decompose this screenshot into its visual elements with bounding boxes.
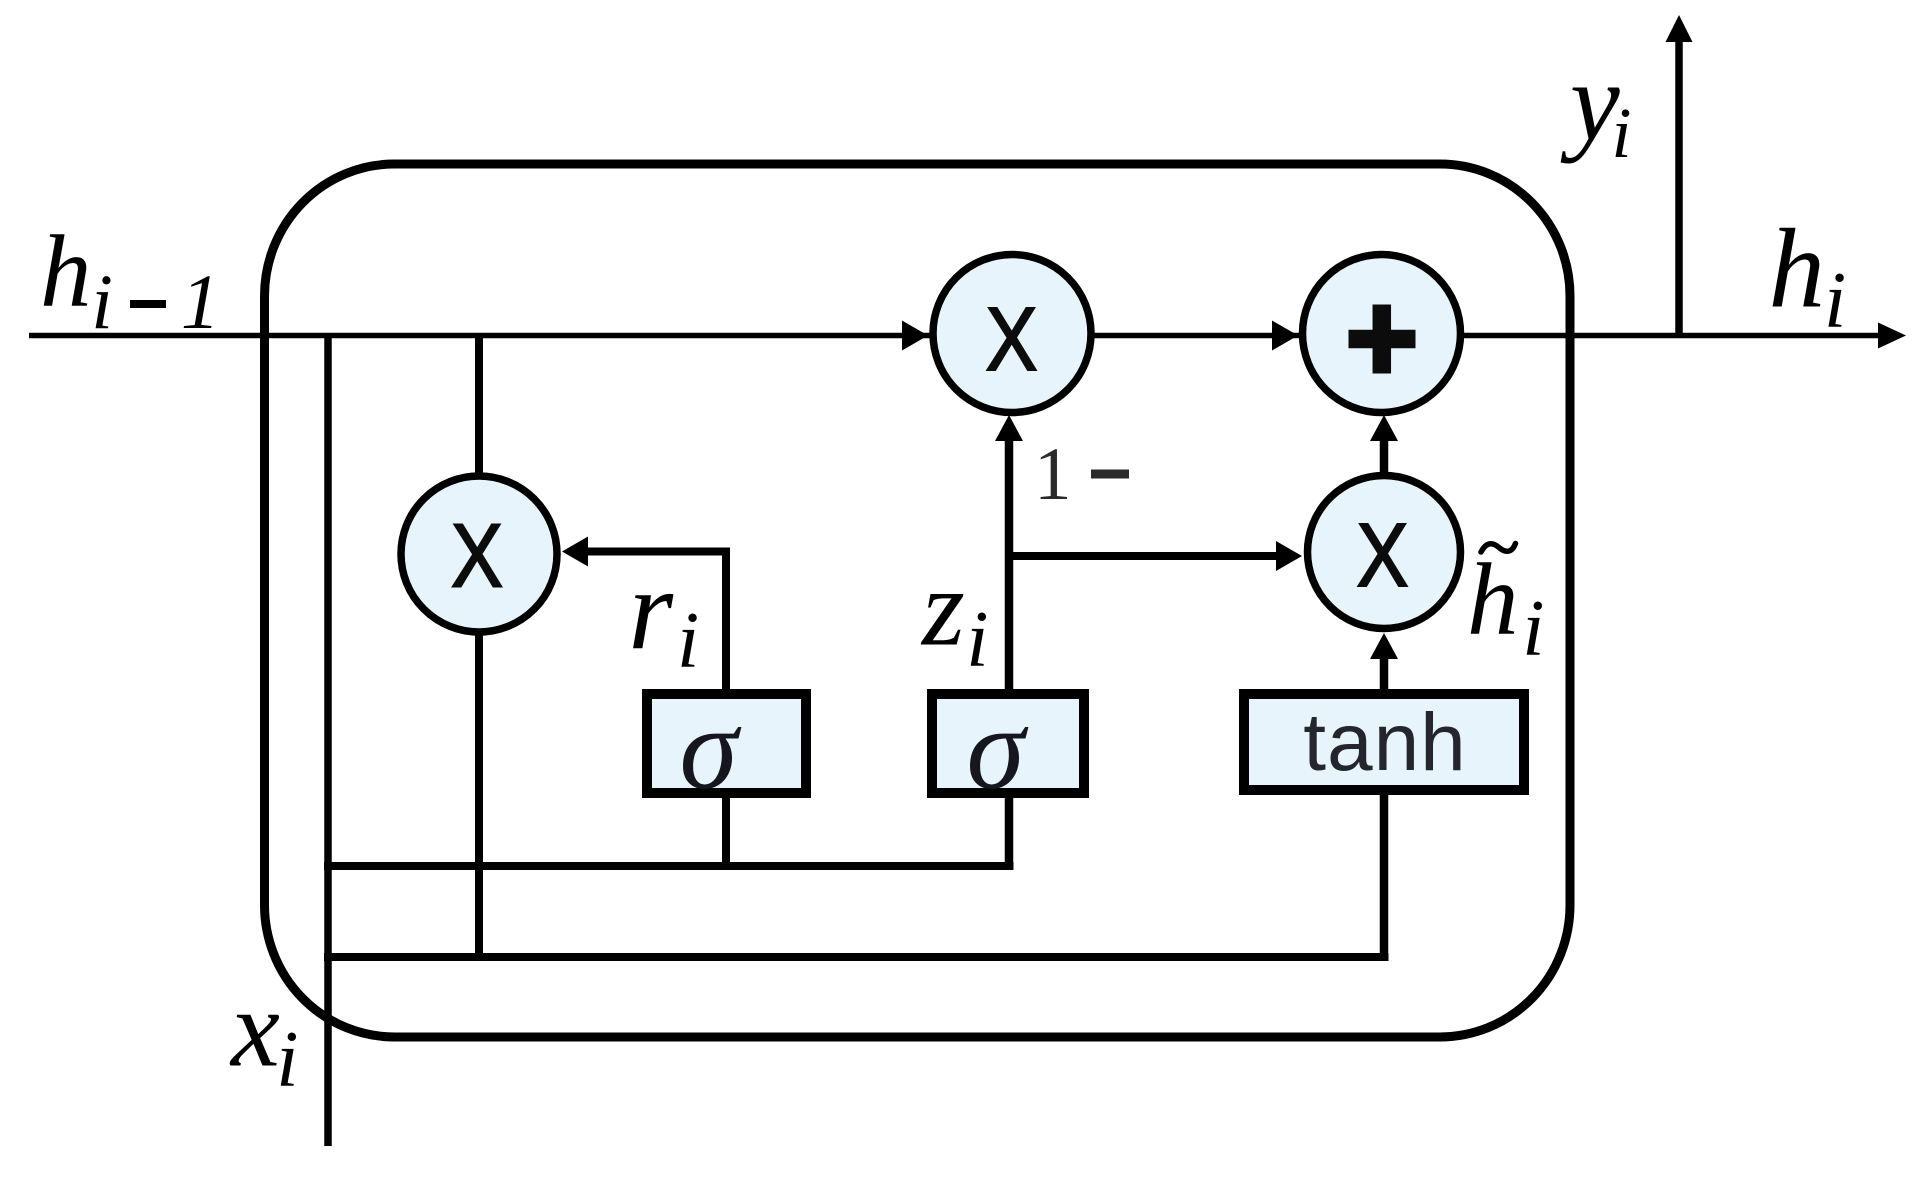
- svg-text:i: i: [276, 1016, 298, 1104]
- svg-text:1: 1: [181, 258, 220, 345]
- svg-text:i: i: [677, 597, 699, 685]
- svg-text:1: 1: [1034, 433, 1072, 516]
- svg-text:σ: σ: [680, 683, 742, 814]
- svg-text:i: i: [91, 258, 113, 345]
- svg-text:i: i: [1824, 257, 1846, 345]
- svg-text:h: h: [1769, 207, 1826, 332]
- svg-text:h: h: [1467, 543, 1519, 657]
- svg-text:i: i: [1522, 585, 1544, 673]
- svg-text:tanh: tanh: [1303, 697, 1467, 788]
- svg-text:i: i: [966, 596, 988, 684]
- svg-text:i: i: [1612, 93, 1632, 173]
- svg-text:X: X: [986, 290, 1038, 390]
- svg-text:x: x: [229, 968, 280, 1090]
- svg-text:σ: σ: [967, 683, 1029, 814]
- svg-text:X: X: [451, 507, 503, 607]
- svg-text:h: h: [40, 215, 92, 329]
- svg-text:r: r: [628, 547, 674, 674]
- svg-text:X: X: [1357, 506, 1409, 606]
- svg-text:z: z: [920, 547, 965, 669]
